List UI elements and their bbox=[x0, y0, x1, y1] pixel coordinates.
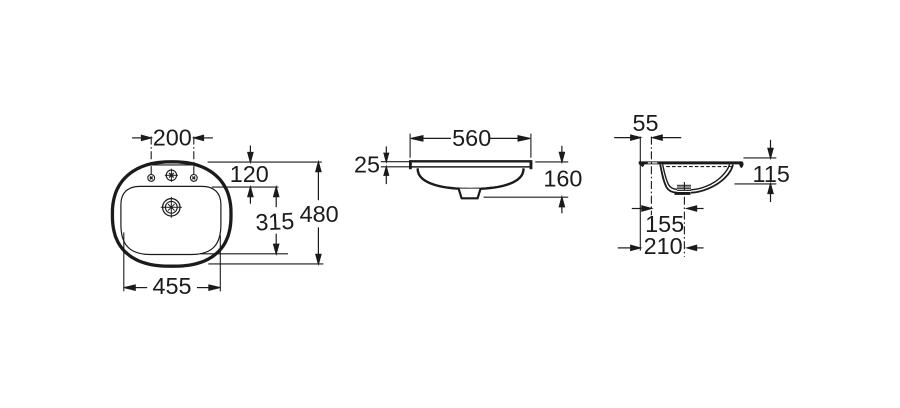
top view: tap deck edge line bbox=[151, 164, 194, 166]
dimension 55 arrows bbox=[614, 135, 681, 140]
side view: hidden rim dashed line bbox=[666, 166, 731, 168]
svg-text:55: 55 bbox=[632, 110, 658, 136]
front view: rim end caps bbox=[409, 160, 412, 169]
top view: waste drain symbol bbox=[161, 197, 182, 218]
top view: left tap hole centerline bbox=[150, 137, 152, 175]
dimension 455 arrows bbox=[124, 285, 220, 290]
dimension 160 reference lines bbox=[535, 161, 568, 163]
dimension 155 arrows bbox=[632, 206, 704, 211]
top view: inner basin edge bbox=[121, 186, 221, 254]
top view: right tap hole bbox=[190, 175, 197, 182]
side view: drain centerline bbox=[683, 182, 685, 257]
side view: bowl left wall outer bbox=[660, 164, 677, 192]
dimension 25 reference lines bbox=[381, 161, 410, 163]
svg-text:25: 25 bbox=[354, 152, 380, 178]
side view: left edge extension line bbox=[639, 137, 641, 251]
svg-text:560: 560 bbox=[452, 125, 491, 151]
svg-text:160: 160 bbox=[543, 165, 582, 191]
front view: rim bottom line bbox=[412, 166, 531, 168]
dimension 315 arrows bbox=[274, 187, 279, 254]
dimension 160 arrows bbox=[559, 146, 564, 214]
front view: bowl outline bbox=[418, 168, 524, 189]
side view: tap hole centerline bbox=[650, 137, 652, 216]
svg-text:455: 455 bbox=[152, 273, 191, 299]
side view: bowl left wall inner bbox=[663, 164, 677, 189]
svg-text:120: 120 bbox=[230, 161, 269, 187]
dimension 115 arrows bbox=[768, 140, 773, 202]
side view: rim right end hook bbox=[739, 161, 743, 168]
front view: drain bbox=[459, 189, 481, 199]
svg-text:200: 200 bbox=[153, 124, 192, 150]
dimension 315 reference line bbox=[201, 253, 289, 255]
top view: left tap hole bbox=[148, 175, 155, 182]
side view: tap hole section slit bbox=[648, 162, 658, 163]
dimension 210 arrows bbox=[618, 245, 704, 250]
side view: drain threads bbox=[677, 185, 691, 190]
dimension 560 extension lines bbox=[409, 134, 411, 158]
dimension 200 arrows bbox=[132, 135, 213, 140]
dimension 120 reference lines bbox=[208, 161, 322, 163]
side view: drain flange bbox=[675, 192, 691, 195]
svg-text:315: 315 bbox=[255, 208, 295, 236]
dimension 560 arrows bbox=[411, 136, 530, 141]
dimension 480 reference line bbox=[208, 263, 323, 265]
dimension 115 reference lines bbox=[743, 157, 776, 159]
dimension 120 arrows bbox=[248, 146, 253, 204]
side view: bowl right wall inner bbox=[691, 164, 730, 189]
top view: centre tap hole bbox=[165, 169, 178, 182]
dimension 25 arrows bbox=[384, 146, 389, 184]
top view: outer rim of washbasin bbox=[112, 162, 231, 266]
top view: right tap hole centerline bbox=[193, 137, 195, 175]
side view: rim left lip bbox=[639, 162, 645, 168]
dimension 455 extension lines bbox=[123, 232, 125, 291]
side view: bowl right wall outer bbox=[691, 165, 733, 193]
svg-text:210: 210 bbox=[644, 233, 683, 259]
svg-text:480: 480 bbox=[300, 201, 339, 227]
front view: rim section bbox=[410, 161, 531, 169]
svg-text:115: 115 bbox=[753, 161, 790, 187]
dimension 480 arrows bbox=[316, 162, 321, 264]
side view: rim section bar bbox=[639, 161, 743, 164]
